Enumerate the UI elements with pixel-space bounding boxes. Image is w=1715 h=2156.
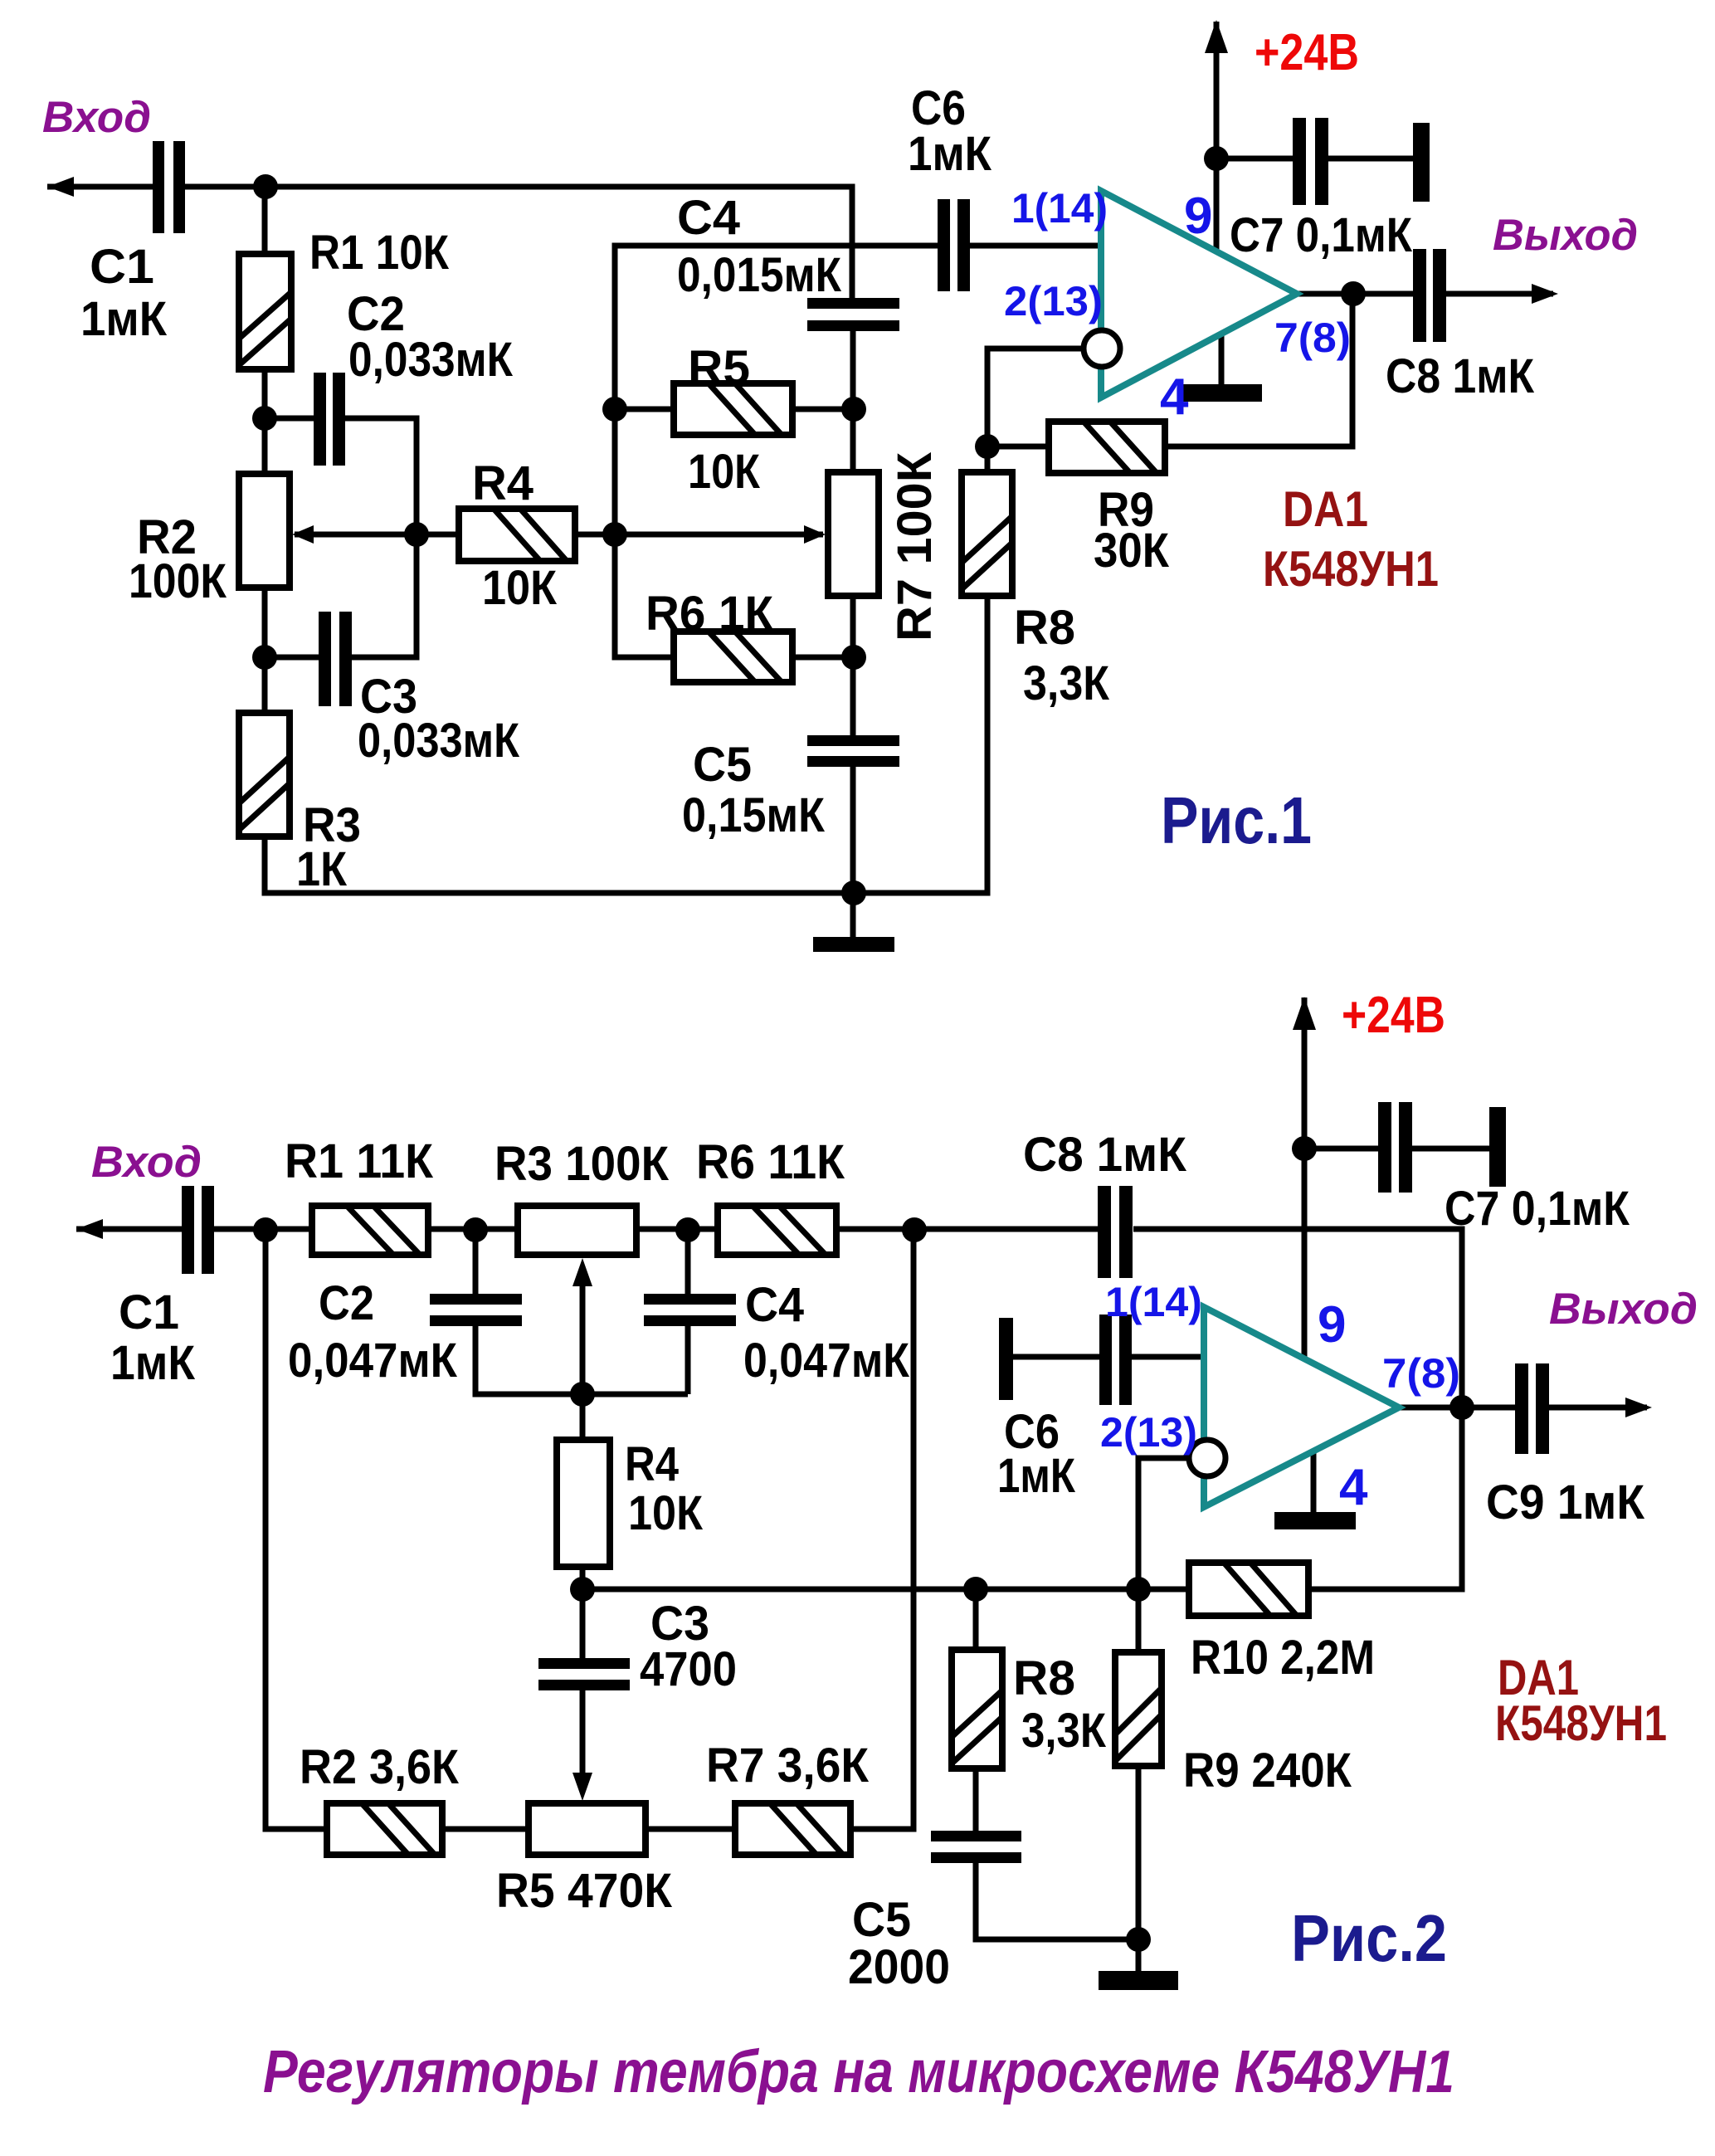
svg-text:C2: C2 xyxy=(319,1276,374,1330)
svg-text:Выход: Выход xyxy=(1493,211,1638,260)
svg-text:9: 9 xyxy=(1318,1296,1346,1354)
svg-text:Выход: Выход xyxy=(1549,1285,1698,1334)
svg-text:9: 9 xyxy=(1184,188,1212,245)
svg-text:7(8): 7(8) xyxy=(1382,1350,1460,1397)
svg-text:C8 1мК: C8 1мК xyxy=(1023,1128,1187,1182)
svg-text:R6 1К: R6 1К xyxy=(646,587,774,641)
svg-text:4: 4 xyxy=(1160,368,1189,426)
svg-text:0,047мК: 0,047мК xyxy=(288,1334,458,1388)
svg-text:C5: C5 xyxy=(852,1893,911,1947)
svg-text:R2 3,6К: R2 3,6К xyxy=(300,1740,460,1794)
svg-text:R4: R4 xyxy=(625,1437,679,1491)
svg-text:0,047мК: 0,047мК xyxy=(743,1334,910,1388)
svg-text:C7 0,1мК: C7 0,1мК xyxy=(1445,1182,1630,1236)
svg-text:DA1: DA1 xyxy=(1283,481,1368,537)
svg-text:100К: 100К xyxy=(129,554,227,608)
svg-text:C4: C4 xyxy=(677,191,740,245)
svg-text:3,3К: 3,3К xyxy=(1021,1704,1107,1758)
svg-text:Рис.1: Рис.1 xyxy=(1161,783,1312,857)
svg-text:R6 11К: R6 11К xyxy=(696,1135,845,1189)
svg-text:R7 100К: R7 100К xyxy=(888,451,942,641)
svg-text:1мК: 1мК xyxy=(997,1449,1076,1503)
svg-text:0,033мК: 0,033мК xyxy=(358,714,520,768)
svg-text:1(14): 1(14) xyxy=(1105,1279,1202,1325)
svg-text:R4: R4 xyxy=(472,456,534,510)
svg-text:К548УН1: К548УН1 xyxy=(1495,1695,1667,1751)
svg-text:7(8): 7(8) xyxy=(1274,315,1351,361)
svg-text:Вход: Вход xyxy=(91,1138,202,1187)
svg-text:C5: C5 xyxy=(693,738,752,792)
svg-text:1мК: 1мК xyxy=(110,1336,196,1390)
svg-text:3,3К: 3,3К xyxy=(1023,656,1110,710)
svg-text:Вход: Вход xyxy=(42,93,151,142)
svg-text:R5 470К: R5 470К xyxy=(496,1864,673,1918)
svg-text:+24В: +24В xyxy=(1342,987,1445,1044)
svg-text:Регуляторы тембра на микросхем: Регуляторы тембра на микросхеме К548УН1 xyxy=(263,2039,1454,2105)
svg-text:1(14): 1(14) xyxy=(1011,185,1108,232)
svg-text:30К: 30К xyxy=(1094,524,1170,578)
svg-text:2(13): 2(13) xyxy=(1004,278,1103,324)
svg-text:10К: 10К xyxy=(628,1486,704,1540)
svg-text:1мК: 1мК xyxy=(908,127,992,181)
svg-text:R1 10К: R1 10К xyxy=(309,226,450,280)
svg-text:R10 2,2М: R10 2,2М xyxy=(1191,1631,1375,1685)
svg-text:R7 3,6К: R7 3,6К xyxy=(706,1739,870,1793)
svg-text:0,015мК: 0,015мК xyxy=(677,248,842,302)
svg-text:2000: 2000 xyxy=(848,1940,950,1994)
svg-text:10К: 10К xyxy=(688,445,761,499)
svg-text:10К: 10К xyxy=(482,561,558,615)
svg-text:C8 1мК: C8 1мК xyxy=(1386,349,1535,403)
svg-text:C1: C1 xyxy=(119,1285,179,1339)
svg-text:C9 1мК: C9 1мК xyxy=(1486,1476,1645,1529)
svg-text:Рис.2: Рис.2 xyxy=(1291,1901,1447,1975)
svg-text:R5: R5 xyxy=(688,341,750,395)
svg-text:2(13): 2(13) xyxy=(1100,1409,1197,1456)
svg-text:0,15мК: 0,15мК xyxy=(682,788,826,842)
svg-text:4700: 4700 xyxy=(640,1642,737,1696)
svg-text:C1: C1 xyxy=(90,240,154,294)
svg-text:+24В: +24В xyxy=(1255,24,1359,81)
svg-text:R9 240К: R9 240К xyxy=(1183,1744,1352,1797)
svg-text:0,033мК: 0,033мК xyxy=(348,333,514,387)
svg-text:R1 11К: R1 11К xyxy=(285,1134,434,1188)
svg-text:R3 100К: R3 100К xyxy=(495,1137,670,1191)
svg-text:4: 4 xyxy=(1339,1459,1368,1516)
svg-text:R8: R8 xyxy=(1014,601,1075,655)
svg-text:C4: C4 xyxy=(745,1278,804,1332)
svg-text:К548УН1: К548УН1 xyxy=(1263,541,1439,597)
svg-text:C7 0,1мК: C7 0,1мК xyxy=(1230,208,1413,262)
svg-text:1мК: 1мК xyxy=(80,292,168,346)
svg-text:1К: 1К xyxy=(296,842,348,896)
svg-text:R8: R8 xyxy=(1013,1651,1075,1705)
